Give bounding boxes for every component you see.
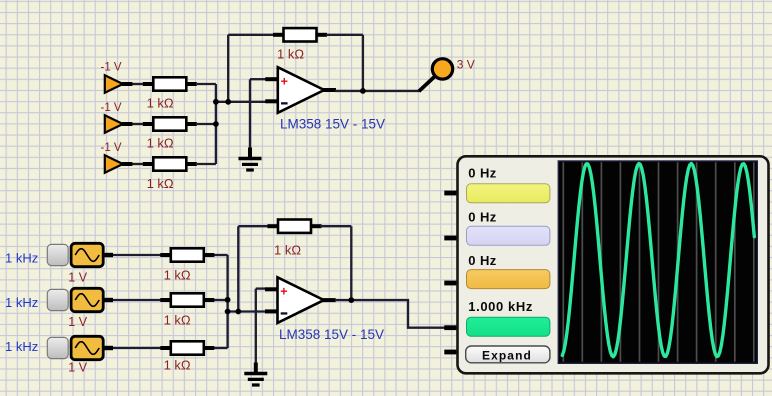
svg-text:LM358 15V - 15V: LM358 15V - 15V <box>279 327 384 342</box>
svg-text:1 kΩ: 1 kΩ <box>147 136 174 151</box>
svg-text:1 kΩ: 1 kΩ <box>164 313 191 328</box>
svg-text:1 kΩ: 1 kΩ <box>147 176 174 191</box>
svg-text:0 Hz: 0 Hz <box>468 166 496 181</box>
svg-text:1 V: 1 V <box>68 271 87 285</box>
svg-text:1 kΩ: 1 kΩ <box>164 268 191 283</box>
svg-text:1 V: 1 V <box>68 361 87 375</box>
svg-text:1 kHz: 1 kHz <box>5 295 38 310</box>
svg-text:1 kΩ: 1 kΩ <box>147 95 174 110</box>
svg-text:1 kΩ: 1 kΩ <box>277 47 304 62</box>
svg-text:LM358 15V - 15V: LM358 15V - 15V <box>280 117 385 132</box>
svg-text:1 kHz: 1 kHz <box>5 251 38 266</box>
svg-text:0 Hz: 0 Hz <box>468 210 496 225</box>
svg-text:1 kΩ: 1 kΩ <box>164 358 191 373</box>
svg-text:1 kΩ: 1 kΩ <box>274 243 301 258</box>
svg-text:+: + <box>281 74 288 88</box>
svg-text:1 kHz: 1 kHz <box>5 339 38 354</box>
svg-text:1.000 kHz: 1.000 kHz <box>468 299 533 314</box>
svg-text:0 Hz: 0 Hz <box>468 253 496 268</box>
svg-text:3 V: 3 V <box>457 58 475 72</box>
svg-text:+: + <box>280 285 287 299</box>
svg-text:1 V: 1 V <box>68 315 87 329</box>
svg-text:-1 V: -1 V <box>101 142 122 154</box>
svg-text:-1 V: -1 V <box>101 62 122 74</box>
svg-text:-1 V: -1 V <box>101 102 122 114</box>
svg-text:Expand: Expand <box>482 349 532 363</box>
